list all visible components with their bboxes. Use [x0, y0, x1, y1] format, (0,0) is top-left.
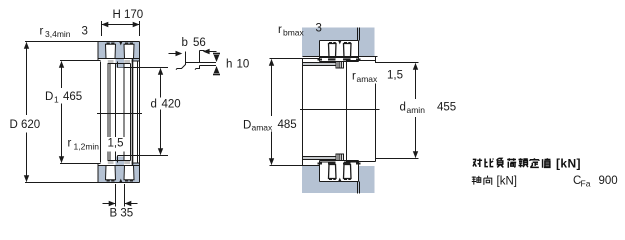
svg-text:1,5: 1,5: [387, 70, 403, 82]
svg-text:H 170: H 170: [113, 9, 144, 21]
svg-text:Fa: Fa: [581, 179, 591, 189]
svg-text:D: D: [45, 91, 53, 103]
svg-text:B 35: B 35: [110, 208, 134, 220]
svg-text:amax: amax: [252, 123, 274, 133]
svg-text:d: d: [400, 102, 406, 114]
svg-text:b: b: [182, 37, 188, 49]
svg-text:900: 900: [599, 175, 618, 187]
svg-text:amax: amax: [357, 74, 379, 84]
svg-text:1: 1: [54, 95, 59, 105]
svg-text:455: 455: [437, 102, 456, 114]
svg-text:r: r: [40, 26, 44, 38]
svg-text:D 620: D 620: [10, 119, 41, 131]
svg-text:d: d: [151, 99, 157, 111]
svg-text:amin: amin: [407, 105, 426, 115]
svg-text:3: 3: [82, 26, 88, 38]
svg-text:465: 465: [63, 91, 82, 103]
svg-text:1,5: 1,5: [108, 138, 124, 150]
svg-text:[kN]: [kN]: [497, 176, 517, 188]
svg-text:3: 3: [316, 23, 322, 35]
svg-text:56: 56: [193, 37, 206, 49]
svg-text:1,2min: 1,2min: [74, 142, 100, 152]
svg-text:r: r: [352, 71, 356, 83]
svg-text:485: 485: [278, 119, 297, 131]
svg-text:420: 420: [162, 99, 181, 111]
svg-text:10: 10: [237, 59, 250, 71]
svg-text:bmax: bmax: [283, 28, 305, 38]
svg-text:D: D: [243, 120, 251, 132]
svg-text:3,4min: 3,4min: [45, 29, 71, 39]
svg-text:r: r: [278, 24, 282, 36]
svg-text:r: r: [68, 138, 72, 150]
svg-text:h: h: [226, 59, 232, 71]
svg-text:[kN]: [kN]: [556, 157, 581, 171]
